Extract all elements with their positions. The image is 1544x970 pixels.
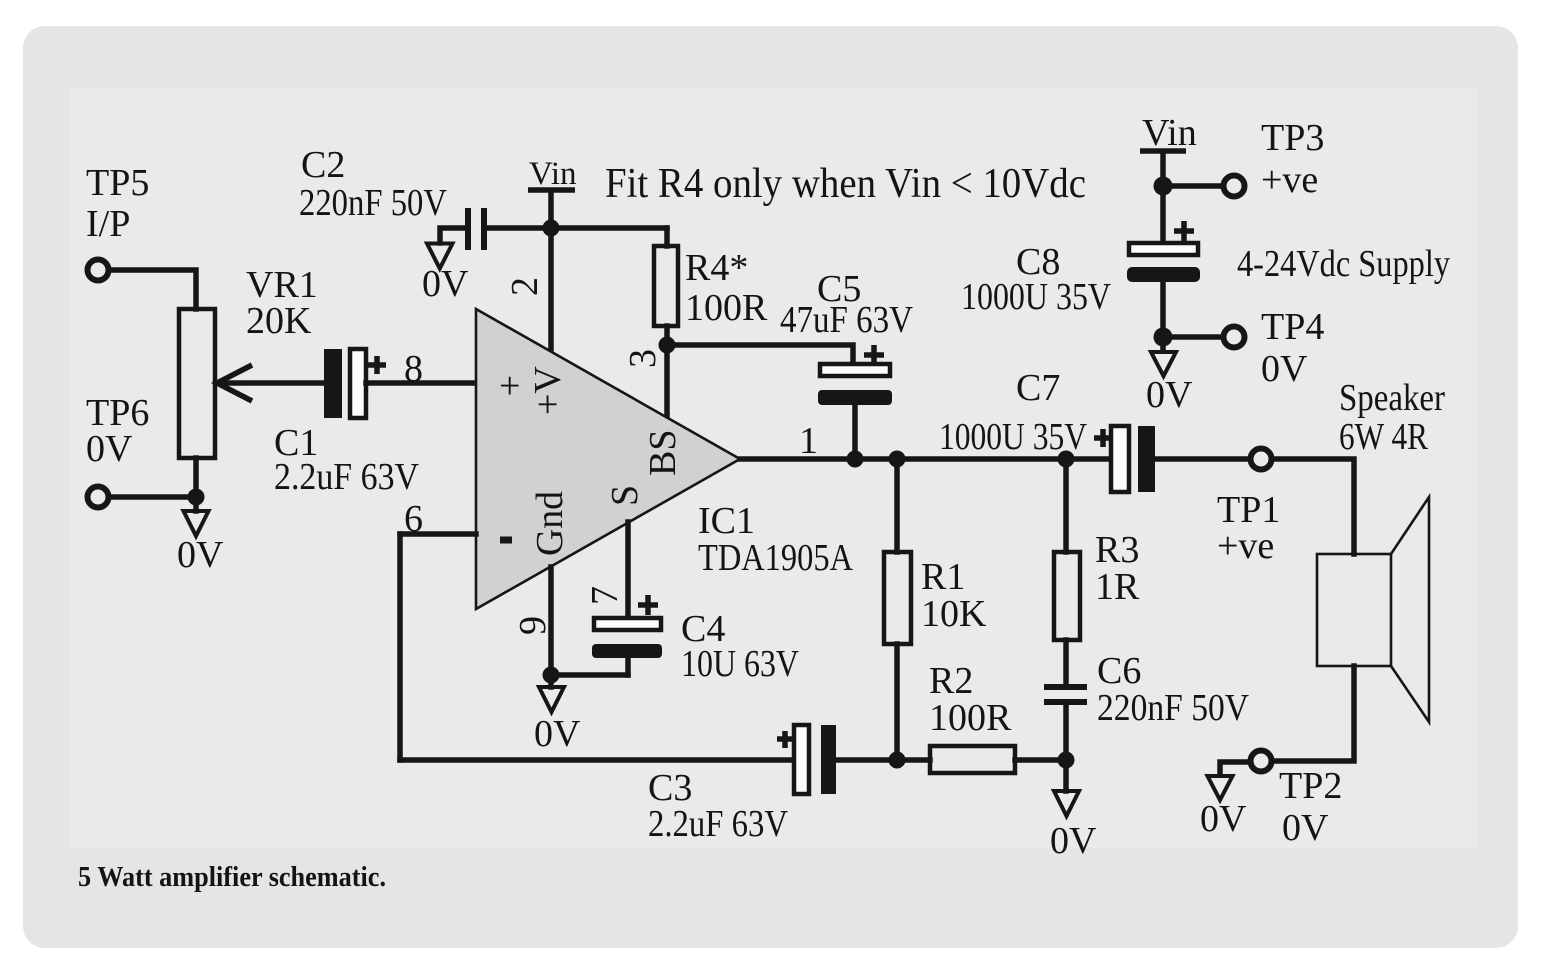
wire R2 right lead xyxy=(1015,757,1066,763)
svg-text:1R: 1R xyxy=(1095,566,1140,608)
svg-text:100R: 100R xyxy=(929,697,1012,739)
svg-text:BS: BS xyxy=(642,430,684,476)
ground below C8 xyxy=(1151,337,1176,376)
wire TP5 to VR1 top xyxy=(112,270,196,309)
svg-text:TDA1905A: TDA1905A xyxy=(698,537,853,579)
svg-text:TP4: TP4 xyxy=(1261,306,1324,348)
svg-text:0V: 0V xyxy=(1050,820,1097,862)
svg-text:2.2uF 63V: 2.2uF 63V xyxy=(648,803,788,845)
junction R1 bottom xyxy=(889,752,906,769)
wire pin 7 xyxy=(625,522,631,618)
wire TP1 to speaker xyxy=(1274,459,1354,554)
svg-text:9: 9 xyxy=(512,616,554,635)
wire C1 to pin 8 xyxy=(366,380,476,386)
wire Vin node down to R4 xyxy=(664,228,670,246)
wire TP6 to junction xyxy=(112,494,196,500)
svg-text:0V: 0V xyxy=(177,534,224,576)
svg-text:0V: 0V xyxy=(1282,807,1329,849)
node TP5 label xyxy=(86,162,149,245)
svg-text:6W 4R: 6W 4R xyxy=(1339,416,1429,458)
svg-text:+ve: +ve xyxy=(1217,525,1274,567)
terminal TP3 xyxy=(1224,176,1245,197)
svg-text:4-24Vdc Supply: 4-24Vdc Supply xyxy=(1237,243,1450,285)
wire R1 top lead xyxy=(894,459,900,552)
label R4* 100R xyxy=(685,247,768,329)
capacitor C6 xyxy=(1044,684,1087,705)
svg-text:0V: 0V xyxy=(1261,348,1308,390)
wire pin 2 xyxy=(548,228,554,351)
wire C2 right to Vin node xyxy=(487,225,667,231)
terminal TP2 xyxy=(1251,751,1272,772)
terminal TP1 xyxy=(1251,449,1272,470)
svg-text:7: 7 xyxy=(584,586,626,605)
svg-text:0V: 0V xyxy=(1146,374,1193,416)
label C5 47uF 63V xyxy=(780,268,913,341)
op-amp - input mark xyxy=(500,537,512,544)
label Speaker 6W 4R xyxy=(1339,377,1445,458)
label C2 220nF 50V xyxy=(299,144,447,224)
svg-text:R4*: R4* xyxy=(685,247,748,289)
wire R2 left lead xyxy=(897,757,930,763)
wire TP2 to ground xyxy=(1220,762,1249,775)
svg-text:R3: R3 xyxy=(1095,529,1139,571)
label VR1 20K xyxy=(246,264,318,342)
svg-text:10U 63V: 10U 63V xyxy=(681,643,799,685)
terminal TP5 xyxy=(88,260,109,281)
label TP2 0V xyxy=(1279,765,1342,849)
speaker xyxy=(1317,497,1429,722)
svg-text:3: 3 xyxy=(622,349,664,368)
label C8 1000U 35V xyxy=(961,241,1111,318)
label C6 220nF 50V xyxy=(1097,650,1249,729)
svg-text:S: S xyxy=(604,485,646,506)
svg-text:R2: R2 xyxy=(929,660,973,702)
svg-text:+: + xyxy=(499,365,520,407)
junction R2 right node xyxy=(1058,752,1075,769)
label C1 2.2uF 63V xyxy=(274,422,419,498)
svg-text:Speaker: Speaker xyxy=(1339,377,1445,419)
label C3 2.2uF 63V xyxy=(648,767,788,845)
svg-text:Fit R4 only when Vin < 10Vdc: Fit R4 only when Vin < 10Vdc xyxy=(605,161,1086,207)
svg-text:1000U 35V: 1000U 35V xyxy=(961,276,1111,318)
svg-text:1: 1 xyxy=(799,420,818,462)
svg-text:8: 8 xyxy=(404,348,423,390)
capacitor C4 xyxy=(592,595,662,675)
svg-text:220nF 50V: 220nF 50V xyxy=(299,182,447,224)
svg-text:I/P: I/P xyxy=(86,203,130,245)
capacitor C2 xyxy=(465,208,487,250)
junction below VR1 xyxy=(188,489,205,506)
label IC1 TDA1905A xyxy=(698,500,853,579)
svg-text:IC1: IC1 xyxy=(698,500,755,542)
resistor R2 xyxy=(930,746,1015,773)
wire C6 bottom lead xyxy=(1063,705,1069,760)
svg-text:2.2uF 63V: 2.2uF 63V xyxy=(274,456,419,498)
svg-text:C2: C2 xyxy=(301,144,345,186)
capacitor C8 xyxy=(1127,221,1200,337)
wire feedback bottom run xyxy=(400,757,794,763)
wire pin 3 into IC xyxy=(664,345,670,416)
resistor R1 xyxy=(884,552,911,644)
svg-text:C7: C7 xyxy=(1016,367,1060,409)
junction Vin supply node xyxy=(1154,177,1173,196)
svg-text:TP3: TP3 xyxy=(1261,117,1324,159)
svg-text:TP2: TP2 xyxy=(1279,765,1342,807)
ground at TP2 xyxy=(1208,776,1233,800)
label R2 100R xyxy=(929,660,1012,739)
junction R1 top xyxy=(889,451,906,468)
svg-text:Gnd: Gnd xyxy=(529,491,571,556)
wire C4 return xyxy=(551,672,628,678)
node TP6 label xyxy=(86,392,149,470)
net Vin supply xyxy=(1140,112,1197,186)
svg-text:5 Watt amplifier schematic.: 5 Watt amplifier schematic. xyxy=(78,862,386,893)
svg-text:20K: 20K xyxy=(246,300,312,342)
svg-text:C6: C6 xyxy=(1097,650,1141,692)
svg-text:0V: 0V xyxy=(422,263,469,305)
junction R3 top xyxy=(1058,451,1075,468)
wire Vin node to C8 xyxy=(1160,186,1166,243)
junction C5 at output xyxy=(847,451,864,468)
svg-text:47uF 63V: 47uF 63V xyxy=(780,299,913,341)
label R3 1R xyxy=(1095,529,1140,608)
svg-text:Vin: Vin xyxy=(529,156,577,192)
wire R3 to C6 xyxy=(1063,640,1069,684)
wire R3 top lead xyxy=(1063,459,1069,552)
svg-text:TP5: TP5 xyxy=(86,162,149,204)
junction Vin node xyxy=(543,220,560,237)
svg-text:10K: 10K xyxy=(921,593,987,635)
svg-text:+ve: +ve xyxy=(1261,159,1318,201)
svg-text:0V: 0V xyxy=(1200,798,1247,840)
wire pin 3 node to C5 xyxy=(667,345,853,364)
svg-text:220nF 50V: 220nF 50V xyxy=(1097,687,1249,729)
terminal TP4 xyxy=(1224,327,1245,348)
wire speaker bottom to TP2 xyxy=(1274,666,1354,761)
wire R4 bottom xyxy=(664,326,670,345)
svg-text:+V: +V xyxy=(527,366,569,415)
label R1 10K xyxy=(921,556,987,635)
svg-text:Vin: Vin xyxy=(1142,112,1197,154)
junction pin 3 node xyxy=(659,337,676,354)
label TP1 +ve xyxy=(1217,489,1280,567)
junction pin 9 ground node xyxy=(543,667,560,684)
svg-text:0V: 0V xyxy=(534,713,581,755)
wire feedback left leg xyxy=(397,534,403,760)
label TP4 0V xyxy=(1261,306,1324,390)
ground below C2 xyxy=(427,244,453,269)
wire pin 9 xyxy=(548,567,554,675)
wire IC output pin 1 xyxy=(740,456,1111,462)
wire to TP3 xyxy=(1163,183,1221,189)
svg-text:0V: 0V xyxy=(86,428,133,470)
wire pin 6 xyxy=(400,531,476,537)
wire C3 to R2 node xyxy=(836,757,897,763)
label C7 1000U 35V xyxy=(939,367,1087,458)
resistor R4 xyxy=(654,246,678,326)
svg-text:R1: R1 xyxy=(921,556,965,598)
wire R1 bottom lead xyxy=(894,644,900,760)
resistor R3 xyxy=(1054,552,1080,640)
wire C2 left lead to ground xyxy=(440,228,465,243)
svg-text:100R: 100R xyxy=(685,287,768,329)
net Vin xyxy=(528,156,577,228)
capacitor C5 xyxy=(818,345,892,459)
wire to TP4 xyxy=(1163,334,1221,340)
svg-text:1000U 35V: 1000U 35V xyxy=(939,416,1087,458)
label TP3 +ve xyxy=(1261,117,1324,201)
terminal TP6 xyxy=(88,487,109,508)
ground below R2/C6 node xyxy=(1054,760,1079,816)
capacitor C3 xyxy=(777,725,836,794)
wire C7 to TP1 xyxy=(1155,456,1248,462)
ground below VR1 xyxy=(184,497,209,536)
op-amp IC1 triangle xyxy=(476,309,740,609)
svg-text:2: 2 xyxy=(504,277,546,296)
junction C8 bottom node xyxy=(1154,328,1173,347)
ground below pin 9 xyxy=(539,675,564,712)
potentiometer VR1 xyxy=(179,309,324,458)
capacitor C7 xyxy=(1094,426,1155,492)
label C4 10U 63V xyxy=(681,608,799,685)
capacitor C1 xyxy=(324,349,386,418)
wire VR1 bottom xyxy=(193,458,199,497)
